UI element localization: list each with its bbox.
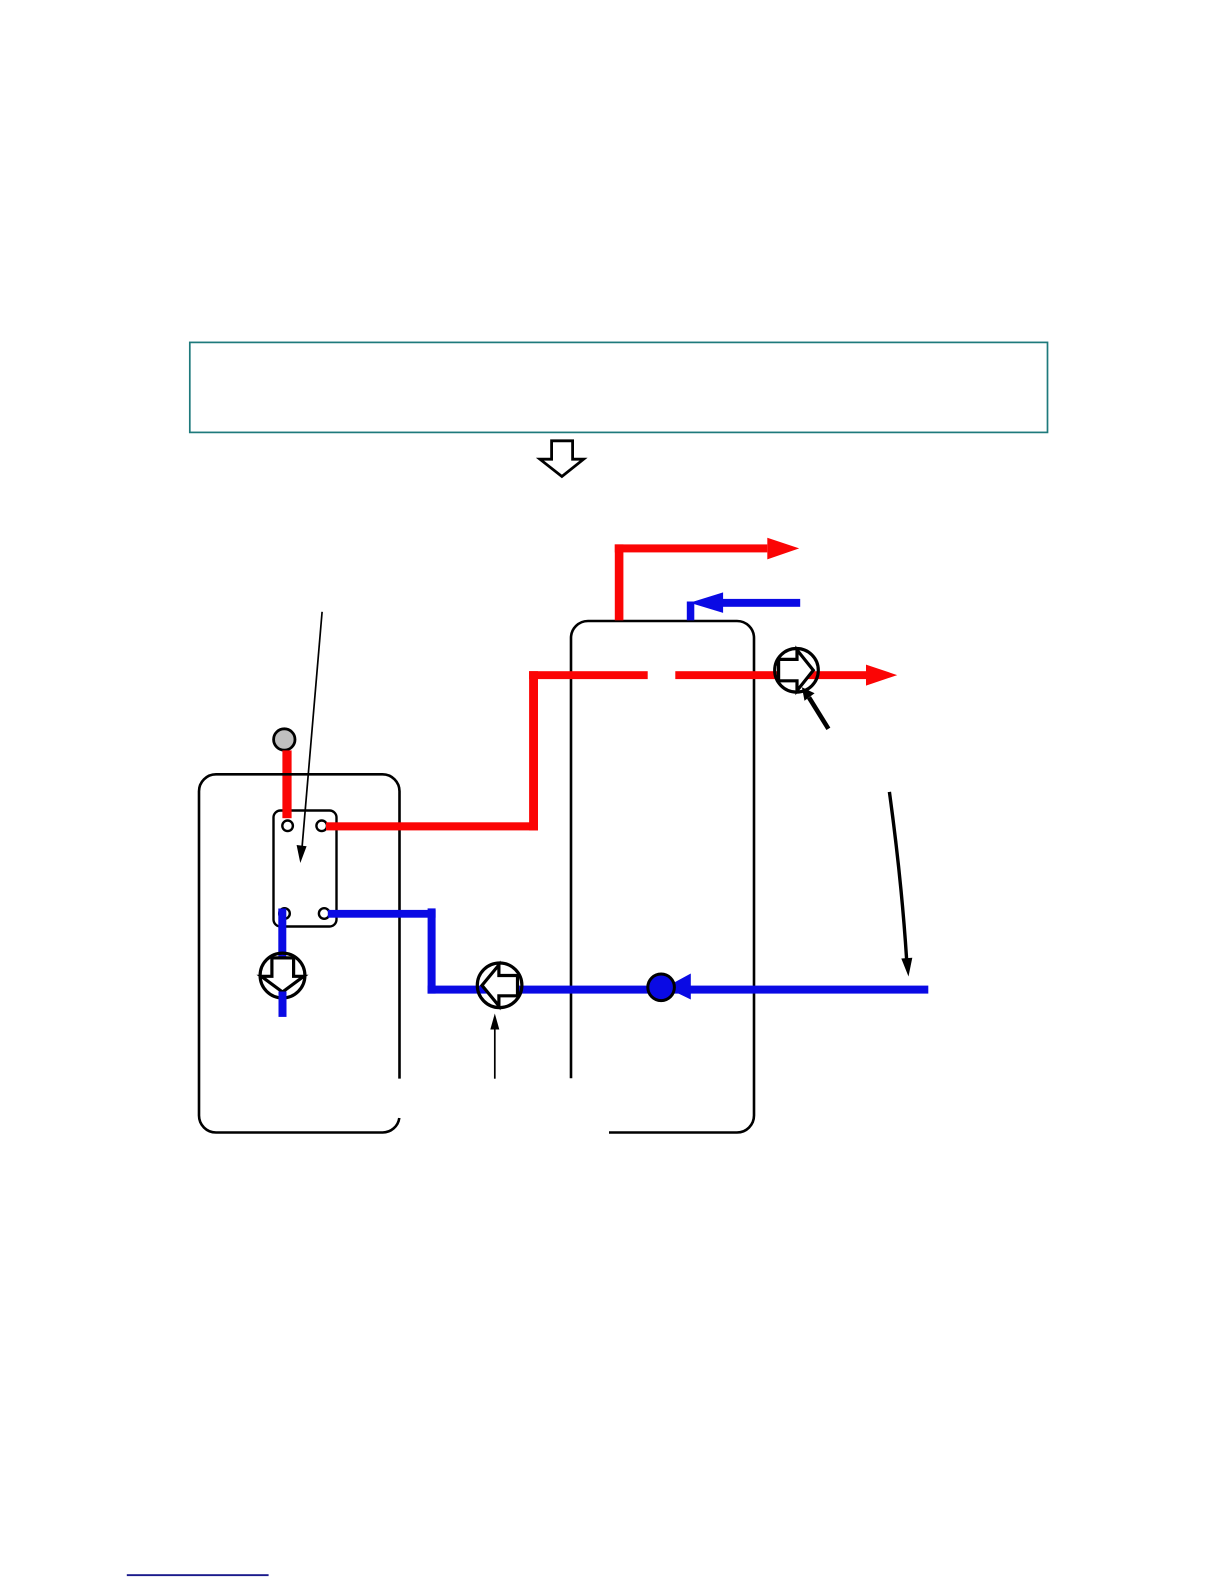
pump P3 (on left blue leg, arrow down) <box>260 953 305 998</box>
heat exchanger port bottom-right <box>319 908 330 919</box>
red stub pipe from sensor to heat exchanger <box>282 750 291 818</box>
red pipe: top arrow horizontal <box>615 544 768 552</box>
red pipe: riser (vertical) <box>529 671 538 830</box>
red pipe: tank top vertical <box>615 544 624 620</box>
blue pipe: heat exchanger bottom-left down leg <box>278 909 286 962</box>
storage tank outline <box>571 621 754 1133</box>
left box (boiler unit outline) <box>199 774 400 1132</box>
footnote separator line (navy) <box>127 1574 269 1576</box>
red pipe: top horizontal left segment (to tank) <box>529 671 648 679</box>
blue arrowhead top (flow in, pointing left) <box>690 592 723 613</box>
blue pipe: top return horizontal <box>713 599 800 607</box>
heat exchanger port bottom-left <box>279 908 290 919</box>
blue pipe: bottom horizontal main <box>428 986 929 994</box>
blue arrowhead at ball (pointing left) <box>666 974 691 1000</box>
sensor bulb (gray circle) <box>274 729 295 750</box>
annotation arrow to pump P2 (pointing up) <box>490 1014 499 1079</box>
blue pipe: stub below pump P3 <box>279 992 287 1017</box>
heat exchanger port top-right <box>316 821 327 832</box>
heat exchanger port top-left <box>282 821 293 832</box>
blue pipe: heat exchanger bottom-right horizontal <box>328 910 436 918</box>
blue pipe: stub down into tank top <box>687 602 695 621</box>
red arrowhead right (flow out) <box>866 665 897 686</box>
ball check valve (blue ball) <box>648 974 675 1001</box>
annotation arrow to pump P1 <box>802 687 829 729</box>
annotation arrow to blue return pipe (right side) <box>889 792 912 977</box>
blue pipe: down leg (vertical) <box>428 908 436 993</box>
down block arrow <box>540 441 584 477</box>
red pipe: top horizontal right segment (through pump) <box>675 671 866 679</box>
callout box (teal border) <box>190 342 1048 432</box>
plate heat exchanger body <box>274 811 337 927</box>
annotation line to heat exchanger (long diagonal with arrowhead) <box>297 612 323 863</box>
red arrowhead top (flow out) <box>767 538 799 560</box>
pump P1 (on red pipe, arrow right) <box>775 649 819 693</box>
red pipe: heat exchanger to riser (horizontal) <box>326 822 538 830</box>
pump P2 (on blue pipe, arrow left) <box>477 963 522 1008</box>
